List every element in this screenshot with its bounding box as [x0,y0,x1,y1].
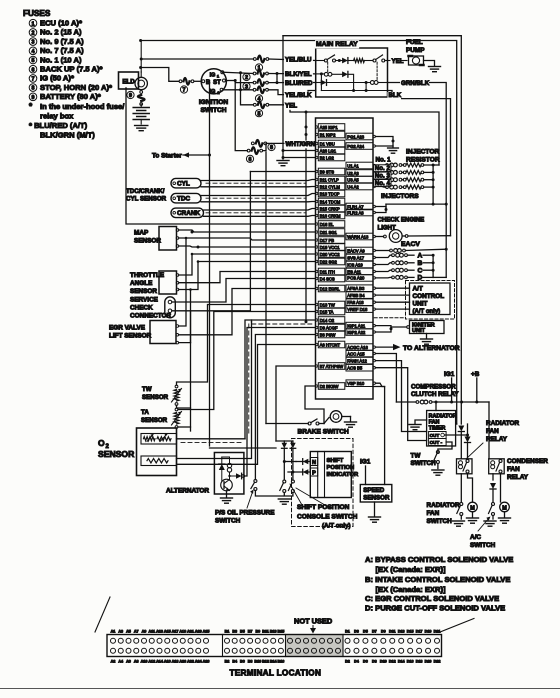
svg-text:B1 IGP2: B1 IGP2 [320,132,336,137]
svg-text:A16: A16 [164,660,171,664]
svg-text:ECU (10 A)*: ECU (10 A)* [40,19,82,28]
svg-text:D2: D2 [345,660,350,664]
page rule bottom [0,688,560,690]
injector resistor 4 [403,186,406,189]
svg-text:GRN/BLK: GRN/BLK [401,80,430,87]
svg-text:D21 SG1: D21 SG1 [320,230,338,235]
ECU pin B11 CYLP [318,176,345,183]
terminal pins not used [288,638,293,643]
wire IGP drop / O2 heater feed [305,112,307,322]
svg-text:FAN: FAN [427,510,440,517]
svg-text:COMPRESSOR: COMPRESSOR [411,384,456,391]
ECU pin B16 CRKM [318,212,345,219]
svg-text:IG1: IG1 [444,371,455,378]
diode console 2 [290,443,296,449]
main relay diode 1 [342,58,348,64]
diode fan 1 [459,403,461,425]
fuse legend item 3 [29,38,37,46]
fuse 1 [253,58,256,61]
AT control unit dashed box [406,281,455,320]
svg-text:8: 8 [32,86,35,92]
svg-text:A20: A20 [179,660,186,664]
wire SCS ground side [172,172,251,311]
shift console dashed box [292,439,354,527]
svg-text:D8: D8 [372,660,377,664]
svg-text:IG (50 A)*: IG (50 A)* [40,74,74,83]
ground rad fan motor [467,517,479,519]
svg-text:N: N [312,460,316,466]
wire IG1 to fuse2 [224,72,253,73]
MAP sensor box [159,227,177,251]
ECU pin D20 VCC2 [318,251,345,258]
svg-text:D12 EGRL: D12 EGRL [320,286,341,291]
main relay resistor [354,59,365,63]
svg-text:SENSOR: SENSOR [130,288,157,295]
svg-text:ACC A15: ACC A15 [347,351,365,356]
wire AT dashed net [374,317,405,319]
fuse 9 vertical [140,91,143,94]
wire O2 heater ground [177,345,316,465]
svg-text:IGP1 A21: IGP1 A21 [347,323,366,328]
svg-text:*: * [29,102,33,111]
svg-text:CLUTCH RELAY: CLUTCH RELAY [411,391,459,398]
label 4 [255,95,262,102]
terminal pins section B [225,638,230,643]
svg-text:SENSOR: SENSOR [141,417,168,424]
wire brake lamp ground [342,416,351,418]
svg-text:9: 9 [129,93,132,99]
shift indicator N cell [310,458,317,466]
label 5 [255,110,262,117]
svg-text:B15: B15 [278,629,285,633]
wire fuel pump ground [424,61,435,67]
wire TW ground [177,405,191,408]
solenoid A [375,255,391,257]
svg-text:FLR2 A8: FLR2 A8 [347,210,364,215]
terminal strip divider B-NU [285,635,287,657]
svg-text:D12: D12 [389,660,396,664]
label 1 [255,64,262,71]
svg-text:CHECK: CHECK [130,305,153,312]
svg-text:D13: D13 [398,629,405,633]
svg-text:FLR1 A7: FLR1 A7 [347,204,364,209]
svg-text:A19: A19 [179,629,186,633]
svg-text:IG: IG [210,89,216,95]
ECU pin A6 HTCNT [318,341,345,348]
svg-text:B9: B9 [255,629,260,633]
AC switch pointer [478,518,489,531]
svg-text:A/T: A/T [413,286,423,293]
wire VSP pin link [375,383,384,386]
wire ACGF [244,440,247,476]
wire check lamp bus IG [450,236,452,402]
svg-text:CYL: CYL [177,181,190,188]
svg-text:SWITCH: SWITCH [411,460,437,467]
ECU pin FLR2 A8 [346,209,373,216]
svg-text:D4 SCS: D4 SCS [320,276,335,281]
wire top frame [283,36,461,403]
brake lamp [324,417,330,424]
svg-text:* BLU/RED (A/T): * BLU/RED (A/T) [29,121,88,130]
wire TDCP [201,194,316,196]
ground igniter [426,334,428,339]
main relay wire BLU/RED row [316,82,321,84]
svg-text:SWITCH: SWITCH [200,107,226,114]
svg-text:5: 5 [32,58,35,64]
wire EGR VCC [179,238,186,326]
svg-text:ALTERNATOR: ALTERNATOR [166,488,209,495]
wire alternator ground [229,491,231,495]
ground fan timer [415,420,427,424]
wire battery bus top [141,41,457,425]
svg-text:ICS A19: ICS A19 [347,262,363,267]
svg-text:A13: A13 [156,629,163,633]
svg-text:A6: A6 [126,660,131,664]
label 7 [180,86,187,93]
ECU pin D17 PB [318,237,345,244]
main relay bottom bus [321,90,387,92]
wire CRKP [204,209,316,211]
node battery top [139,39,142,42]
diode console 1 [282,443,288,449]
ground PG [388,147,399,149]
check engine lamp [389,230,402,243]
svg-text:B: INTAKE CONTROL SOLENOID VAL: B: INTAKE CONTROL SOLENOID VALVE [365,575,510,584]
svg-text:O: O [98,438,105,448]
svg-text:D17 PB: D17 PB [320,238,335,243]
injector No.3 [374,172,392,179]
svg-text:MAP: MAP [134,230,149,237]
wire OUT- to TW switch [438,442,452,453]
svg-text:A6 HTCNT: A6 HTCNT [320,342,341,347]
svg-text:D22 SG2: D22 SG2 [320,259,338,264]
svg-text:D: PURGE CUT-OFF SOLENOID VALV: D: PURGE CUT-OFF SOLENOID VALVE [365,604,505,613]
svg-text:SENSOR: SENSOR [98,449,135,459]
fuse 7 [179,80,182,83]
ECU pin D2 BKSW [318,383,345,390]
svg-text:FAN: FAN [486,428,499,435]
svg-text:B10: B10 [254,660,261,664]
compressor clutch relay contact [396,401,416,403]
ECU pin PG2 A24 [346,143,373,150]
svg-text:INJECTORS: INJECTORS [381,193,419,200]
ECU pin B9 STS [318,168,345,175]
ignition terminal IG2 [220,88,223,91]
svg-text:EGR VALVE: EGR VALVE [109,325,146,332]
ECU pin ACGC A16 [346,344,373,351]
svg-text:SVS A17: SVS A17 [347,255,364,260]
svg-text:B16 CRKM: B16 CRKM [320,213,341,218]
ECU pin PCS A20 [346,275,373,282]
CRANK pickup coil [171,208,204,218]
wire AFSA to ATCU [375,287,409,289]
radiator fan relay pointer [466,443,483,459]
svg-text:4: 4 [32,49,35,55]
svg-text:AFSB B4: AFSB B4 [347,293,365,298]
wire ACGC to alternator arrow [375,346,393,348]
injector resistor 1 [403,164,406,167]
main relay contact 2 [373,59,376,62]
ECU pin B13 TDCP [318,190,345,197]
wire TA ground [177,343,191,431]
ignition terminal B [202,80,205,83]
wire ST bus down to fuse6 [235,83,247,151]
svg-text:ES A11: ES A11 [347,269,361,274]
terminal strip break right [440,619,474,633]
svg-text:A17: A17 [172,629,179,633]
svg-text:D13 TW: D13 TW [320,302,335,307]
wire D16 EL from ELD [126,88,316,224]
svg-text:In the under-hood fuse/: In the under-hood fuse/ [40,102,125,111]
svg-text:TA: TA [141,409,149,416]
fuse legend item 6 [29,65,37,73]
svg-text:A18: A18 [172,660,179,664]
ECU pin ACC A15 [346,350,373,357]
svg-text:WHT/GRN: WHT/GRN [286,141,316,148]
svg-text:FANH A12: FANH A12 [347,358,367,363]
fuse legend item 5 [29,56,37,64]
svg-text:SWITCH: SWITCH [427,518,453,525]
ground console [288,496,290,499]
ECU pin ES A11 [346,268,373,275]
svg-text:B7 ATHPSW: B7 ATHPSW [320,364,344,369]
wire lamp to BLK bus [405,235,408,238]
battery [140,104,142,107]
wire fuse6 to fuse8 [263,143,266,150]
main relay wire contact1 feed [316,60,325,62]
wire ECU top feed [305,112,307,118]
diode fan 2 [467,435,469,438]
node console P [291,471,294,474]
svg-text:A11: A11 [148,629,155,633]
wire +B down [476,378,478,402]
wire STS [250,171,315,173]
svg-text:ELD: ELD [122,79,135,86]
injector No.4 [374,180,392,187]
ground condenser fan motor [499,517,511,519]
wire U4 to injector 4 [375,186,385,189]
wire throttle VCC2 [179,254,316,275]
ECU pin ACS B5 [346,364,373,371]
fuse 3 [253,81,256,84]
alternator output diode [230,475,237,477]
svg-text:CHECK ENGINE: CHECK ENGINE [378,217,425,224]
svg-text:BLU/RED: BLU/RED [285,80,313,87]
ECU pin U1 A1 [346,162,373,169]
svg-text:LIFT SENSOR: LIFT SENSOR [109,333,152,340]
speed sensor box [360,485,392,503]
node clutch out [450,401,453,404]
svg-text:7: 7 [183,88,186,94]
ECU pin PG1 A23 [346,133,373,140]
ECU pin B1 IGP2 [318,131,345,138]
svg-text:D11: D11 [389,629,396,633]
ECU pin VREF D18 [346,306,373,313]
wire ACS bus [375,368,426,441]
ECU pin B12 CYLM [318,183,345,190]
svg-text:RELAY: RELAY [507,474,529,481]
svg-text:D19 VCC1: D19 VCC1 [320,245,341,250]
ECU pin D16 EL [318,221,345,228]
svg-text:P/S OIL PRESSURE: P/S OIL PRESSURE [215,510,275,517]
condenser fan relay box [489,459,505,474]
svg-text:6: 6 [32,67,35,73]
O2 element [141,434,177,445]
svg-text:B2: B2 [225,660,230,664]
wire brake hot feed [265,152,267,424]
svg-text:A3: A3 [118,629,123,633]
ECU pin B2 LG2 [318,154,345,161]
PG ground bracket [375,137,393,147]
svg-text:B9 STS: B9 STS [320,169,335,174]
solenoid D [375,276,391,279]
svg-text:No. 1: No. 1 [376,157,392,164]
svg-text:VSP B10: VSP B10 [347,381,365,386]
svg-text:1: 1 [32,21,35,27]
svg-text:YEL: YEL [285,102,297,109]
injector resistor 2 [403,171,406,174]
ECU pin D9 ACGF [318,324,345,331]
label 6 [246,155,253,162]
wire U3 to injector 3 [375,179,385,181]
svg-text:OUT: OUT [430,433,440,438]
svg-text:D15 TA: D15 TA [320,309,334,314]
wire IGP1 IGP2 to igniter [375,326,391,332]
terminal strip body [107,635,442,657]
wire LG1 to ground [283,150,316,152]
svg-text:EACV A9: EACV A9 [347,248,365,253]
ground rad fan switch [453,520,465,522]
wire IG1 to speed sensor [365,466,367,485]
wire O2 heater feed [177,322,252,459]
wire IG2 to fuse4 [223,89,253,91]
fuse legend item 4 [29,47,37,55]
fuse 5 [253,103,256,106]
svg-text:RADIATOR: RADIATOR [427,502,461,509]
terminal pins section A [111,638,116,643]
svg-text:B13: B13 [270,629,277,633]
svg-text:SENSOR: SENSOR [142,394,169,401]
svg-text:RADIATOR: RADIATOR [486,420,520,427]
svg-text:BLK: BLK [389,92,402,99]
ground fuel pump [429,66,441,68]
wire TA signal [176,406,178,408]
wire ELD up [140,41,142,73]
ECU pin AFSA B3 [346,285,373,292]
wire starter bus down [209,155,211,446]
ELD box [119,72,139,89]
wire TDCM [201,201,316,203]
node brake lamp [323,422,325,424]
wire console left verticals [283,449,285,481]
svg-text:D18: D18 [416,660,423,664]
svg-text:ANGLE: ANGLE [130,280,153,287]
svg-text:TW: TW [142,386,152,393]
svg-text:C: EGR CONTROL SOLENOID VALVE: C: EGR CONTROL SOLENOID VALVE [365,594,499,603]
wire BLU/RED [268,82,315,84]
node console N [283,460,286,463]
svg-text:D1: D1 [345,629,350,633]
svg-text:NOT USED: NOT USED [294,617,333,626]
main relay contact 1 [324,59,327,62]
wire EACV pin [375,250,389,252]
ECU pin A26 LG1 [318,147,345,154]
svg-text:SHIFT: SHIFT [327,458,344,464]
fan timer OUT+ cell [429,432,447,439]
ECU pin D12 EGRL [318,285,345,292]
svg-text:D4: D4 [354,660,360,664]
svg-text:A21: A21 [187,629,194,633]
svg-text:M: M [470,506,475,512]
svg-text:5: 5 [258,111,261,117]
svg-text:D1 VBU: D1 VBU [320,141,335,146]
wire sensor ground bus lower [190,343,192,431]
svg-text:M: M [502,506,507,512]
svg-text:2: 2 [245,75,248,81]
radiator fan motor [468,502,478,512]
condenser fan motor [500,502,510,512]
label 8 [268,143,275,150]
svg-text:P: P [312,471,316,477]
svg-text:D5: D5 [363,629,368,633]
svg-text:A25: A25 [203,629,210,633]
wire bus junction [462,401,477,403]
svg-text:SHIFT POSITION: SHIFT POSITION [297,504,350,511]
node IGP feed [305,111,308,114]
terminal strip divider AB [222,635,224,657]
svg-text:MAIN RELAY: MAIN RELAY [316,41,358,48]
wire EGR SG [179,312,191,343]
svg-text:D15: D15 [407,629,414,633]
svg-text:A10: A10 [141,660,148,664]
ECU pin D11 ITH [318,268,345,275]
wire CYLM [201,186,316,188]
TW sensor thermistor [175,385,178,388]
wire console top [284,440,293,442]
wire ACC bus [375,354,396,403]
shield dash CRANK [206,212,306,214]
svg-text:No. 7 (7.5 A): No. 7 (7.5 A) [40,46,84,55]
ECU pin WARN A13 [346,233,373,240]
svg-text:AFSA B3: AFSA B3 [347,286,365,291]
svg-text:A22: A22 [187,660,194,664]
ECU pin IGP2 A22 [346,329,373,336]
service check connector [165,297,176,318]
wire ATHPSW to console [276,366,316,441]
wire O2 signal dashed shield [177,438,246,440]
svg-text:ACS B5: ACS B5 [347,366,363,371]
ECU pin D22 SG2 [318,258,345,265]
svg-text:CONTROL: CONTROL [413,293,445,300]
node VCC bus [191,231,194,234]
wire injector resistor commons [424,165,433,204]
radiator fan relay box [457,459,473,474]
wire WARN to lamp [375,236,383,238]
ECU pin FLR1 A7 [346,203,373,210]
wire relay out GRN/BLK [388,83,447,250]
svg-text:D9: D9 [381,629,386,633]
ECU box [316,118,374,399]
wire TW signal [177,305,316,386]
svg-text:D22: D22 [434,660,441,664]
ECU pin IGP1 A21 [346,322,373,329]
AT control unit box [410,283,451,315]
svg-text:POSITION: POSITION [327,465,355,471]
alternator diode [219,464,225,470]
wire throttle ITH [179,272,316,283]
svg-text:TIMER: TIMER [429,426,446,432]
svg-text:B3: B3 [232,629,237,633]
